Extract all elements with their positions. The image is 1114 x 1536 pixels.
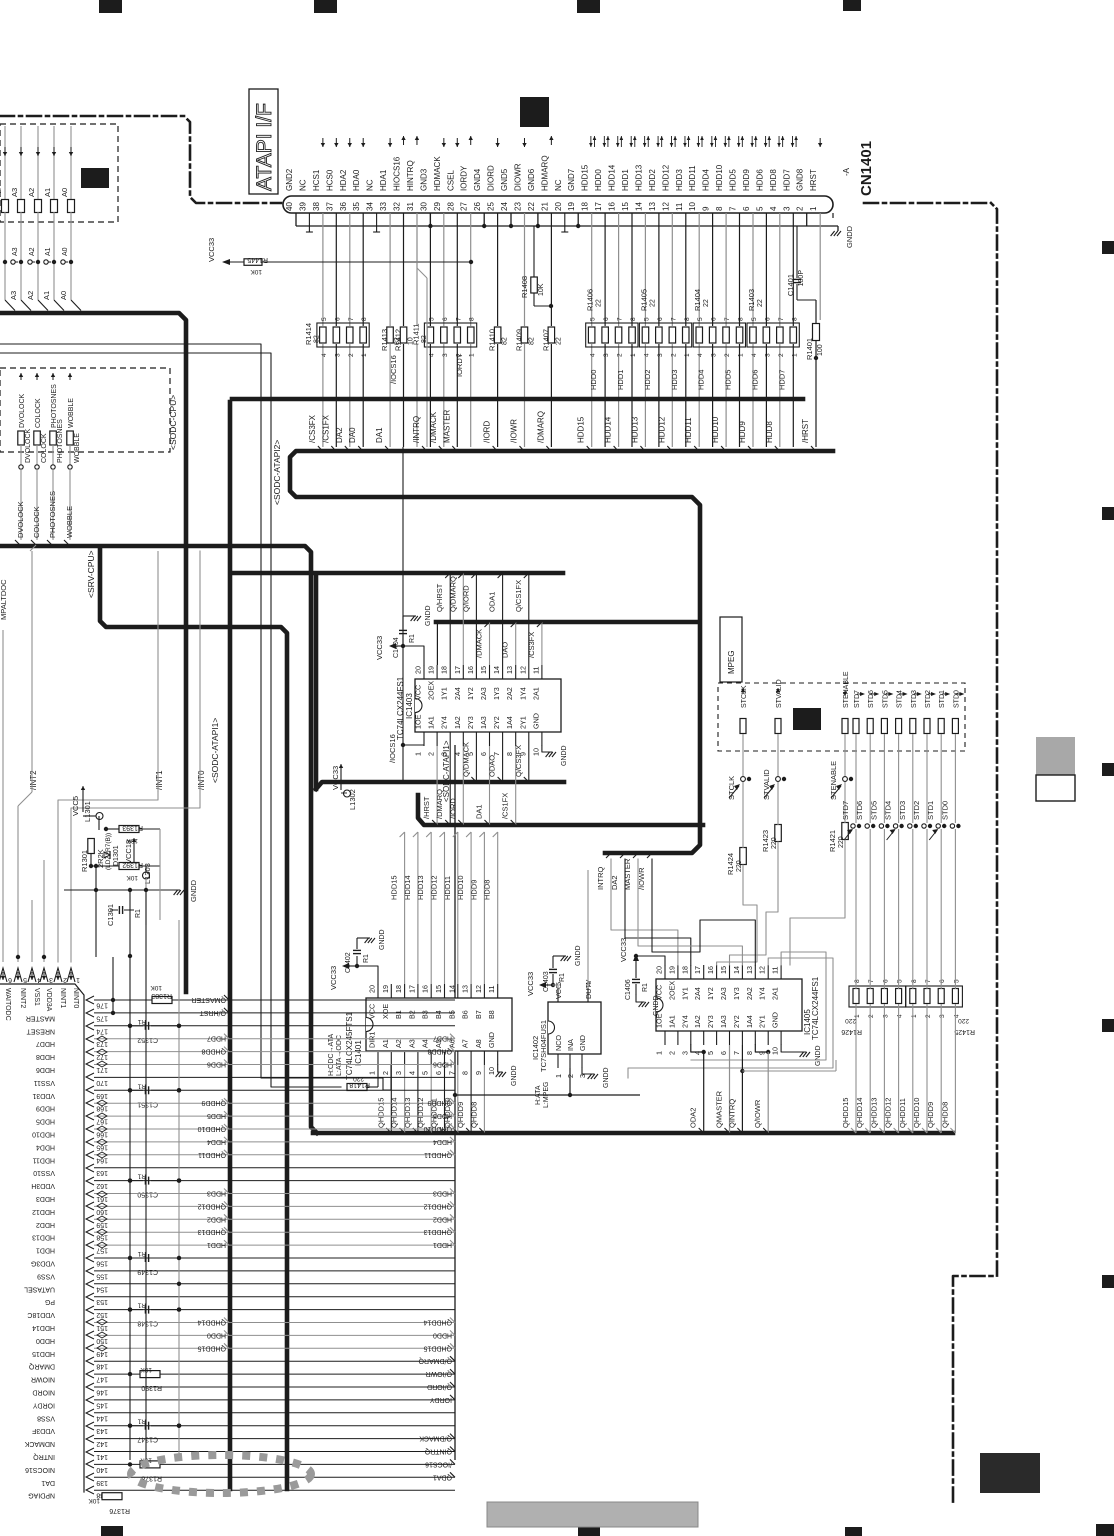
svg-text:156: 156 xyxy=(96,1260,108,1267)
wire /DMARQ IC1403 to y825 xyxy=(449,746,451,825)
svg-text:HDD13: HDD13 xyxy=(630,416,639,443)
svg-text:HCS0: HCS0 xyxy=(325,169,334,191)
wire QHDD9 IC1401 to bus xyxy=(470,1065,472,1133)
resistor network R1403 xyxy=(747,289,799,357)
svg-text:/CS3FX: /CS3FX xyxy=(308,414,317,443)
pin top 6 WAITODC xyxy=(0,968,7,982)
svg-text:139: 139 xyxy=(96,1479,108,1486)
svg-text:14: 14 xyxy=(732,966,741,974)
svg-text:9: 9 xyxy=(474,1071,483,1075)
wire QHDD10 IC1401 to bus xyxy=(457,1065,459,1133)
svg-text:WOBBLE: WOBBLE xyxy=(65,506,74,538)
svg-text:C1351: C1351 xyxy=(137,1100,158,1107)
svg-text:GNDD: GNDD xyxy=(575,945,582,966)
svg-text:5: 5 xyxy=(643,317,650,321)
svg-text:1A2: 1A2 xyxy=(693,1015,702,1028)
node A2 dot xyxy=(36,260,40,264)
svg-text:Q/IOWR: Q/IOWR xyxy=(753,1099,762,1128)
svg-text:HDD3: HDD3 xyxy=(207,1190,226,1197)
svg-text:10K: 10K xyxy=(88,1497,100,1504)
svg-text:162: 162 xyxy=(96,1182,108,1189)
ground GNDD C1406 xyxy=(636,995,644,1002)
pin 27 arrow xyxy=(470,136,472,145)
svg-text:HDD14: HDD14 xyxy=(608,164,617,191)
svg-text:GNDD: GNDD xyxy=(561,745,568,766)
svg-text:DA1: DA1 xyxy=(475,804,484,819)
svg-text:HDD15: HDD15 xyxy=(390,875,399,900)
svg-text:2: 2 xyxy=(796,206,805,211)
svg-text:/DMACK: /DMACK xyxy=(429,411,438,443)
pin 5 arrows xyxy=(766,136,770,147)
pin 141 column row xyxy=(33,1447,455,1461)
svg-text:13: 13 xyxy=(648,202,657,211)
gray bar bottom center xyxy=(487,1502,698,1527)
svg-text:QHDD10: QHDD10 xyxy=(912,1098,921,1128)
svg-text:HDD12: HDD12 xyxy=(657,416,666,443)
svg-text:STVALID: STVALID xyxy=(776,679,783,708)
svg-text:VDD3A: VDD3A xyxy=(45,988,52,1012)
svg-text:QHDD13: QHDD13 xyxy=(197,1228,226,1235)
svg-text:14: 14 xyxy=(492,666,501,674)
wire HDD8 to IC1401 xyxy=(497,832,499,984)
wire IC1402 INA down xyxy=(569,1068,571,1095)
pin 8 arrows xyxy=(725,136,729,147)
svg-text:GNDD: GNDD xyxy=(189,879,198,902)
resistor STD7 in MPEG box xyxy=(853,719,859,734)
svg-text:6: 6 xyxy=(742,206,751,211)
wire XOE from thin pair xyxy=(383,1065,391,1090)
svg-text:NINT1: NINT1 xyxy=(59,988,66,1008)
svg-text:/INT2: /INT2 xyxy=(29,770,38,790)
svg-text:QHDD8: QHDD8 xyxy=(469,1102,478,1128)
wire HDD14 to IC1401 xyxy=(417,832,419,984)
svg-text:HDD1: HDD1 xyxy=(36,1247,55,1254)
wire x455 long vertical xyxy=(454,745,456,1460)
svg-text:HDD10: HDD10 xyxy=(456,875,465,900)
svg-text:22: 22 xyxy=(757,299,764,307)
svg-text:GNDD: GNDD xyxy=(425,605,432,626)
svg-text:3: 3 xyxy=(711,353,718,357)
wire pin 30 GND3 xyxy=(429,213,431,326)
svg-text:HDD15: HDD15 xyxy=(577,416,586,443)
svg-text:174: 174 xyxy=(96,1027,108,1034)
svg-text:Q/DMACK: Q/DMACK xyxy=(461,742,470,777)
pin 28 arrow xyxy=(456,138,458,147)
node STD5 circle xyxy=(879,824,883,828)
svg-text:4: 4 xyxy=(897,1014,904,1018)
svg-text:HDD1: HDD1 xyxy=(207,1241,226,1248)
svg-text:NIOCS16: NIOCS16 xyxy=(25,1466,55,1473)
svg-text:NC: NC xyxy=(298,179,307,191)
svg-text:HDD14: HDD14 xyxy=(32,1324,55,1331)
junction dots row 143 xyxy=(128,1424,132,1428)
wire pin 13 HDD2 xyxy=(658,213,660,326)
svg-text:HDMACK: HDMACK xyxy=(433,156,442,191)
svg-text:HDD14: HDD14 xyxy=(604,416,613,443)
svg-text:1Y1: 1Y1 xyxy=(680,987,689,1000)
svg-text:5: 5 xyxy=(321,317,328,321)
junction dots row 174 xyxy=(128,1024,132,1028)
svg-text:2A4: 2A4 xyxy=(453,687,462,700)
resistor R1445 pull-up xyxy=(244,256,268,275)
pin 148 column row xyxy=(28,1356,455,1370)
svg-text:/IOCS16: /IOCS16 xyxy=(389,355,398,384)
svg-text:C1352: C1352 xyxy=(137,1036,158,1043)
svg-text:2A4: 2A4 xyxy=(693,987,702,1000)
svg-text:A4: A4 xyxy=(421,1039,430,1048)
svg-text:VCC: VCC xyxy=(414,685,423,700)
black patch in MPEG box xyxy=(793,708,821,730)
wire pin1 below R1401 xyxy=(815,358,817,447)
svg-text:HDD15: HDD15 xyxy=(581,164,590,191)
resistor network R1404 xyxy=(693,289,745,357)
pin 155 column row xyxy=(37,1267,455,1279)
svg-text:HCS1: HCS1 xyxy=(312,169,321,191)
dash-dot border right xyxy=(864,203,997,1503)
svg-text:13: 13 xyxy=(505,666,514,674)
svg-text:IC1403: IC1403 xyxy=(405,693,414,719)
wire STCLK net xyxy=(742,782,744,848)
svg-text:MPEG: MPEG xyxy=(727,650,736,674)
svg-text:20: 20 xyxy=(554,202,563,211)
svg-text:1A4: 1A4 xyxy=(745,1015,754,1028)
wire PHOTOSNES xyxy=(52,445,54,465)
pin 17 arrows xyxy=(604,136,608,147)
svg-text:VCC33: VCC33 xyxy=(331,766,340,790)
node COLOCK circle xyxy=(35,465,39,469)
pin 172 column row xyxy=(36,1047,455,1061)
svg-text:2A3: 2A3 xyxy=(719,987,728,1000)
svg-text:R1: R1 xyxy=(559,973,566,982)
svg-text:XOE: XOE xyxy=(381,1004,390,1019)
svg-text:ODA2: ODA2 xyxy=(689,1108,698,1128)
svg-text:HDD2: HDD2 xyxy=(207,1215,226,1222)
svg-text:HDD8: HDD8 xyxy=(765,421,774,443)
pin 168 column row xyxy=(36,1098,455,1112)
svg-text:R1392: R1392 xyxy=(122,861,143,868)
wire /INT2 xyxy=(31,551,33,792)
pin 16 arrows xyxy=(618,136,622,147)
svg-text:1A1: 1A1 xyxy=(427,716,436,729)
wire NINT2b xyxy=(43,860,45,962)
resistor R1401 xyxy=(805,324,824,361)
bus left SODC-CPU y312 xyxy=(0,313,186,992)
ground GNDD at connector xyxy=(831,231,841,236)
svg-text:2A3: 2A3 xyxy=(479,687,488,700)
svg-text:17: 17 xyxy=(594,202,603,211)
pin 173 column row xyxy=(36,1034,455,1048)
svg-text:STD3: STD3 xyxy=(911,690,918,708)
wire A0 tick to bus xyxy=(71,300,81,311)
wire pin 17 HDD0 xyxy=(604,213,606,326)
pin 154 column row xyxy=(24,1280,455,1292)
capacitor C1401 xyxy=(786,226,805,300)
wire pin 10 HDD11 xyxy=(698,213,700,326)
wire Q/HRST H2 to IC1403 xyxy=(449,573,451,665)
wire COLOCK down xyxy=(36,469,38,540)
svg-text:148: 148 xyxy=(96,1363,108,1370)
svg-text:R1401: R1401 xyxy=(805,338,814,360)
resistor network R1405 xyxy=(639,289,691,357)
wire HDD12 to IC1401 xyxy=(444,832,446,984)
rail x179 xyxy=(178,920,180,1460)
svg-text:STD7: STD7 xyxy=(854,690,861,708)
wire L1302 xyxy=(340,768,342,790)
registration mark right 2 xyxy=(1102,507,1114,520)
svg-text:R1: R1 xyxy=(137,1418,146,1425)
svg-text:R1: R1 xyxy=(135,909,142,918)
svg-text:NRESET: NRESET xyxy=(26,1027,55,1034)
svg-text:HDA0: HDA0 xyxy=(352,169,361,191)
pin 35 arrow xyxy=(362,138,364,147)
svg-text:STD4: STD4 xyxy=(884,801,893,820)
pin 1 arrow xyxy=(819,138,821,147)
svg-text:A3: A3 xyxy=(12,247,19,256)
svg-text:R1: R1 xyxy=(642,983,649,992)
svg-text:22: 22 xyxy=(703,299,710,307)
svg-text:7: 7 xyxy=(724,317,731,321)
svg-text:2: 2 xyxy=(617,353,624,357)
resistor A0 xyxy=(68,200,75,213)
pin 142 column row xyxy=(24,1434,455,1448)
svg-text:17: 17 xyxy=(453,666,462,674)
bus L-HDD y825 xyxy=(418,795,703,825)
svg-text:220: 220 xyxy=(736,860,743,872)
wire A0 top xyxy=(70,126,72,199)
svg-text:/DMARQ: /DMARQ xyxy=(435,789,444,819)
svg-text:23: 23 xyxy=(514,202,523,211)
svg-text:IC1401: IC1401 xyxy=(354,1040,363,1066)
node PHOTOSNES circle xyxy=(51,465,55,469)
wire R1418 to DIR1 xyxy=(367,1086,378,1088)
svg-text:19: 19 xyxy=(381,985,390,993)
wire VCC5-R1301 xyxy=(82,790,84,812)
svg-text:HDD0: HDD0 xyxy=(594,169,603,191)
wire STD2 to bus xyxy=(926,829,928,989)
pin 163 column row xyxy=(33,1164,455,1176)
svg-text:QHDD15: QHDD15 xyxy=(197,1344,226,1351)
svg-text:30: 30 xyxy=(419,202,428,211)
resistor R1413 xyxy=(380,327,401,351)
svg-text:<SRV-CPU>: <SRV-CPU> xyxy=(86,550,96,598)
svg-text:HDD6: HDD6 xyxy=(433,1061,452,1068)
svg-text:GND5: GND5 xyxy=(500,168,509,191)
svg-text:Q/CS3FX: Q/CS3FX xyxy=(514,745,523,777)
svg-text:HDD1: HDD1 xyxy=(621,169,630,191)
svg-text:/INTRQ: /INTRQ xyxy=(412,416,421,443)
node A0 circle xyxy=(65,261,68,263)
wire pin 8 HDD10 xyxy=(725,213,727,326)
svg-text:QHDD13: QHDD13 xyxy=(869,1098,878,1128)
wire A2 top xyxy=(37,126,39,199)
svg-text:12: 12 xyxy=(661,202,670,211)
resistor A3 xyxy=(18,200,25,213)
wire STD0 drop xyxy=(954,734,956,823)
pin 36 arrow xyxy=(349,138,351,147)
svg-text:6: 6 xyxy=(711,317,718,321)
bus branch x316 xyxy=(314,575,319,789)
svg-text:VDD3H: VDD3H xyxy=(31,1182,55,1189)
svg-text:HDD11: HDD11 xyxy=(688,165,697,191)
rail x130 xyxy=(129,890,131,1460)
pin 158 column row xyxy=(32,1227,455,1241)
svg-text:UATASEL: UATASEL xyxy=(24,1285,55,1292)
svg-text:R1403: R1403 xyxy=(747,289,756,311)
svg-text:7: 7 xyxy=(778,317,785,321)
wire /INT0 xyxy=(71,551,200,962)
wire Q/DMACK IC1403 to y783 xyxy=(475,746,477,782)
svg-text:MASTER: MASTER xyxy=(26,1014,55,1021)
legend box right gray xyxy=(1036,737,1075,775)
connector column outline xyxy=(0,984,84,1492)
svg-text:GNDD: GNDD xyxy=(845,225,854,248)
resistor network R1425 xyxy=(906,979,975,1035)
pin 25 arrow xyxy=(497,138,499,147)
svg-text:1Y4: 1Y4 xyxy=(518,687,527,700)
svg-text:STD2: STD2 xyxy=(925,690,932,708)
wire QHDD15 IC1401 to bus xyxy=(390,1065,392,1133)
svg-text:GNDD: GNDD xyxy=(653,995,660,1016)
svg-text:14: 14 xyxy=(634,202,643,211)
svg-text:1: 1 xyxy=(911,1014,918,1018)
svg-text:2Y2: 2Y2 xyxy=(732,1015,741,1028)
wire pin 7 HDD5 xyxy=(739,213,741,326)
pin 31 arrow xyxy=(416,136,418,145)
svg-text:HDD8: HDD8 xyxy=(769,169,778,191)
node WOBBLE circle xyxy=(68,465,72,469)
svg-text:8: 8 xyxy=(684,317,691,321)
wire DVOLOCK down xyxy=(20,469,22,540)
svg-text:11: 11 xyxy=(531,667,540,674)
svg-text:MASTER: MASTER xyxy=(623,858,632,890)
svg-text:/IORD: /IORD xyxy=(448,798,457,819)
svg-text:HDD6: HDD6 xyxy=(750,370,759,390)
svg-text:7: 7 xyxy=(729,206,738,211)
svg-text:176: 176 xyxy=(96,1002,108,1009)
dashed ellipse bottom left xyxy=(131,1455,311,1493)
wire /CS3FX y622 to IC1403 xyxy=(541,622,543,665)
svg-text:R1: R1 xyxy=(409,634,416,643)
svg-text:/IOCS16: /IOCS16 xyxy=(425,1460,452,1467)
pin 144 column row xyxy=(37,1409,455,1421)
svg-text:5: 5 xyxy=(897,979,904,983)
svg-text:GND: GND xyxy=(487,1032,496,1048)
dashed box DVOLOCK xyxy=(0,368,170,452)
registration mark top 2 xyxy=(314,0,337,13)
registration mark top 1 xyxy=(99,0,122,13)
svg-text:8: 8 xyxy=(854,979,861,983)
svg-text:DVOLOCK: DVOLOCK xyxy=(16,501,25,538)
svg-text:HDD1: HDD1 xyxy=(616,370,625,390)
pin 145 column row xyxy=(33,1395,456,1409)
svg-text:C1406: C1406 xyxy=(625,979,632,1000)
wire /IOWR to IC1405 xyxy=(652,859,755,965)
svg-text:QINTRQ: QINTRQ xyxy=(424,1448,452,1455)
svg-text:18: 18 xyxy=(394,985,403,993)
svg-text:A0: A0 xyxy=(62,247,69,256)
pin 10 arrows xyxy=(698,136,702,147)
svg-text:1Y3: 1Y3 xyxy=(732,987,741,1000)
svg-text:13: 13 xyxy=(461,985,470,993)
pin 164 column row xyxy=(32,1150,455,1164)
svg-text:HRST: HRST xyxy=(809,169,818,191)
wire QMASTER drop xyxy=(729,1045,731,1133)
pin 162 column row xyxy=(31,1177,455,1189)
svg-text:2: 2 xyxy=(348,353,355,357)
resistor R1392 xyxy=(119,861,143,881)
wire A1 top xyxy=(53,126,55,199)
svg-text:QHDD14: QHDD14 xyxy=(197,1319,226,1326)
svg-text:37: 37 xyxy=(325,202,334,211)
svg-text:HDD0: HDD0 xyxy=(207,1331,226,1338)
svg-text:10K: 10K xyxy=(538,283,545,296)
svg-text:HDA1: HDA1 xyxy=(379,169,388,191)
wire STD3 to bus xyxy=(912,829,914,989)
svg-text:GND6: GND6 xyxy=(527,168,536,191)
bus return y622 xyxy=(436,620,697,625)
svg-text:17: 17 xyxy=(693,966,702,974)
wire STD7 to bus xyxy=(855,829,857,989)
svg-text:QHDD15: QHDD15 xyxy=(841,1098,850,1128)
pin 38 arrow xyxy=(322,138,324,147)
pin 18 arrows xyxy=(591,136,595,147)
svg-text:R1421: R1421 xyxy=(828,830,837,852)
svg-text:R1423: R1423 xyxy=(761,830,770,852)
svg-text:A1: A1 xyxy=(45,247,52,256)
pin 152 column row xyxy=(27,1306,455,1318)
ATAPI I/F title box xyxy=(249,89,278,194)
svg-text:3: 3 xyxy=(882,1014,889,1018)
svg-text:161: 161 xyxy=(96,1195,108,1202)
svg-text:NDMACK: NDMACK xyxy=(24,1440,55,1447)
svg-text:NINT0: NINT0 xyxy=(72,988,79,1008)
svg-text:100: 100 xyxy=(817,344,824,356)
svg-text:4: 4 xyxy=(769,206,778,211)
svg-text:20: 20 xyxy=(655,966,664,974)
svg-text:220: 220 xyxy=(845,1017,856,1024)
svg-text:2: 2 xyxy=(868,1014,875,1018)
svg-text:1A2: 1A2 xyxy=(453,716,462,729)
svg-text:HDD2: HDD2 xyxy=(433,1215,452,1222)
svg-text:220: 220 xyxy=(771,837,778,849)
svg-text:GND: GND xyxy=(531,713,540,729)
pin 12 arrows xyxy=(672,136,676,147)
svg-text:1Y4: 1Y4 xyxy=(758,987,767,1000)
pin 34 NC stub xyxy=(376,213,378,232)
svg-text:Q/HRST: Q/HRST xyxy=(199,1009,226,1016)
svg-text:15: 15 xyxy=(479,666,488,674)
svg-text:5: 5 xyxy=(428,317,435,321)
pin 15 arrows xyxy=(631,136,635,147)
svg-text:21: 21 xyxy=(540,202,549,211)
dash-dot border top-left xyxy=(0,116,281,203)
svg-text:STD7: STD7 xyxy=(841,801,850,820)
svg-text:22: 22 xyxy=(596,299,603,307)
svg-text:6: 6 xyxy=(8,976,12,983)
svg-text:STD2: STD2 xyxy=(912,801,921,820)
svg-text:40: 40 xyxy=(285,202,294,211)
node A4 dot xyxy=(3,260,7,264)
wire GND bus under connector xyxy=(296,225,838,227)
wire R1408 to HDMARQ xyxy=(533,226,535,277)
svg-text:169: 169 xyxy=(96,1092,108,1099)
wire pin 37 HCS0 xyxy=(335,213,337,326)
wire STD3 drop xyxy=(912,734,914,823)
svg-text:B5: B5 xyxy=(447,1010,456,1019)
svg-text:34: 34 xyxy=(366,202,375,211)
resistor STD1 in MPEG box xyxy=(938,719,944,734)
svg-text:143: 143 xyxy=(96,1427,108,1434)
